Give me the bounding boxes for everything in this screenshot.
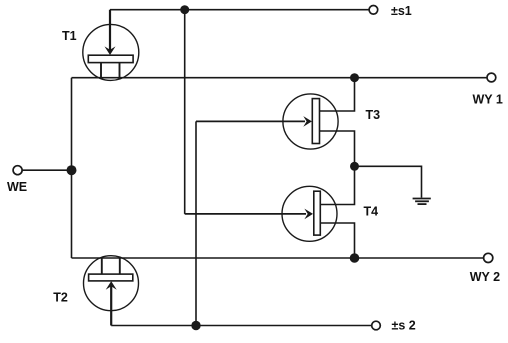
transistor T3 (283, 94, 338, 149)
node: top rail junction (180, 5, 189, 14)
transistor T2 (84, 256, 139, 326)
terminal ±s1 (369, 6, 378, 15)
svg-text:T4: T4 (364, 205, 379, 219)
ground bar middle (415, 200, 429, 202)
transistor T4 (282, 186, 337, 241)
wire: T4 gate line from drop A (185, 213, 306, 215)
svg-text:T2: T2 (53, 290, 68, 304)
wire: center drop A (top rail junction down to T4 gate) (184, 10, 186, 214)
wire: top rail from T1 gate to ±s1 terminal (110, 9, 369, 11)
terminal WY1 (487, 73, 496, 82)
T3 gate arrowhead (303, 116, 312, 127)
svg-text:WY 1: WY 1 (473, 92, 503, 106)
T3 body circle (283, 94, 338, 149)
T4 body circle (282, 186, 337, 241)
T2 plate bar (89, 274, 133, 281)
T2 gate arrowhead (106, 281, 117, 290)
T2 body circle (84, 256, 139, 311)
wire: ground branch from right rail (355, 166, 422, 197)
ground (413, 199, 431, 205)
terminal ±s2 (372, 321, 381, 330)
wire: T3 gate line from drop B (196, 120, 305, 122)
svg-text:WE: WE (7, 180, 27, 194)
transistor T1 (83, 24, 139, 80)
T4 channel bar (314, 191, 321, 235)
T1 left leg (100, 63, 102, 79)
T2 right leg (119, 257, 121, 274)
wire: bottom rail from T2 source to ±s2 terminal (111, 325, 372, 327)
ground bar top (413, 198, 431, 200)
T3 channel bar (312, 99, 319, 144)
svg-text:T3: T3 (366, 108, 381, 122)
wire: WE input lead (22, 169, 72, 171)
node: right rail / ground junction (350, 162, 359, 171)
T2 left leg (101, 257, 103, 274)
T1 gate arrowhead (105, 46, 116, 55)
svg-text:T1: T1 (62, 29, 77, 43)
T2 gate shaft (110, 285, 112, 325)
terminal WY2 (484, 253, 493, 262)
wire: T4 source lead down to WY2 junction (320, 223, 354, 258)
T1 plate bar (88, 55, 133, 62)
wire: drop B (T3 gate down to bottom rail junction) (195, 121, 197, 325)
terminal WE (13, 166, 22, 175)
wire: left vertical rail (71, 78, 73, 258)
wire: output line WY2 (left rail bottom to WY2 terminal) (72, 257, 484, 259)
node: WY2 junction (350, 253, 360, 263)
wire: T3 source lead down right rail to T4 drain (320, 131, 355, 205)
wire: output line WY1 (left rail top to WY1 terminal) (72, 77, 488, 79)
node: WE junction on left rail (67, 165, 77, 175)
wire: T3 drain lead up to WY1 junction (320, 78, 355, 111)
T4 gate arrowhead (304, 209, 313, 220)
svg-text:±s 2: ±s 2 (392, 319, 416, 333)
node: WY1 junction (350, 73, 359, 82)
node: bottom rail junction (191, 321, 200, 330)
svg-text:±s1: ±s1 (391, 4, 412, 18)
T1 body circle (83, 24, 139, 80)
ground bar bottom (418, 203, 427, 205)
T1 right leg (119, 63, 121, 79)
wire: T1 gate drop from top rail (109, 10, 111, 51)
svg-text:WY 2: WY 2 (470, 270, 500, 284)
